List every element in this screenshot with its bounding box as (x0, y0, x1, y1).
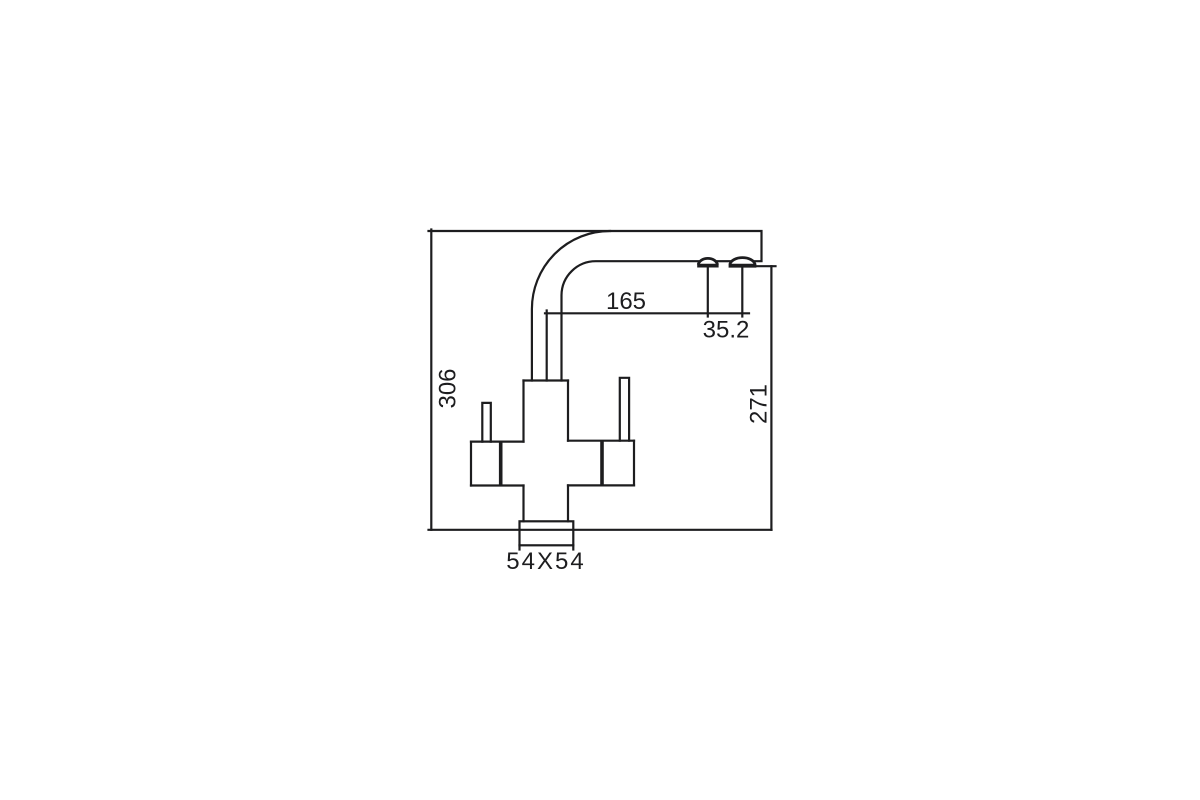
svg-text:165: 165 (606, 288, 646, 315)
svg-text:306: 306 (435, 368, 462, 408)
svg-text:35.2: 35.2 (703, 317, 750, 344)
svg-text:271: 271 (746, 384, 773, 424)
svg-text:54X54: 54X54 (506, 548, 585, 575)
